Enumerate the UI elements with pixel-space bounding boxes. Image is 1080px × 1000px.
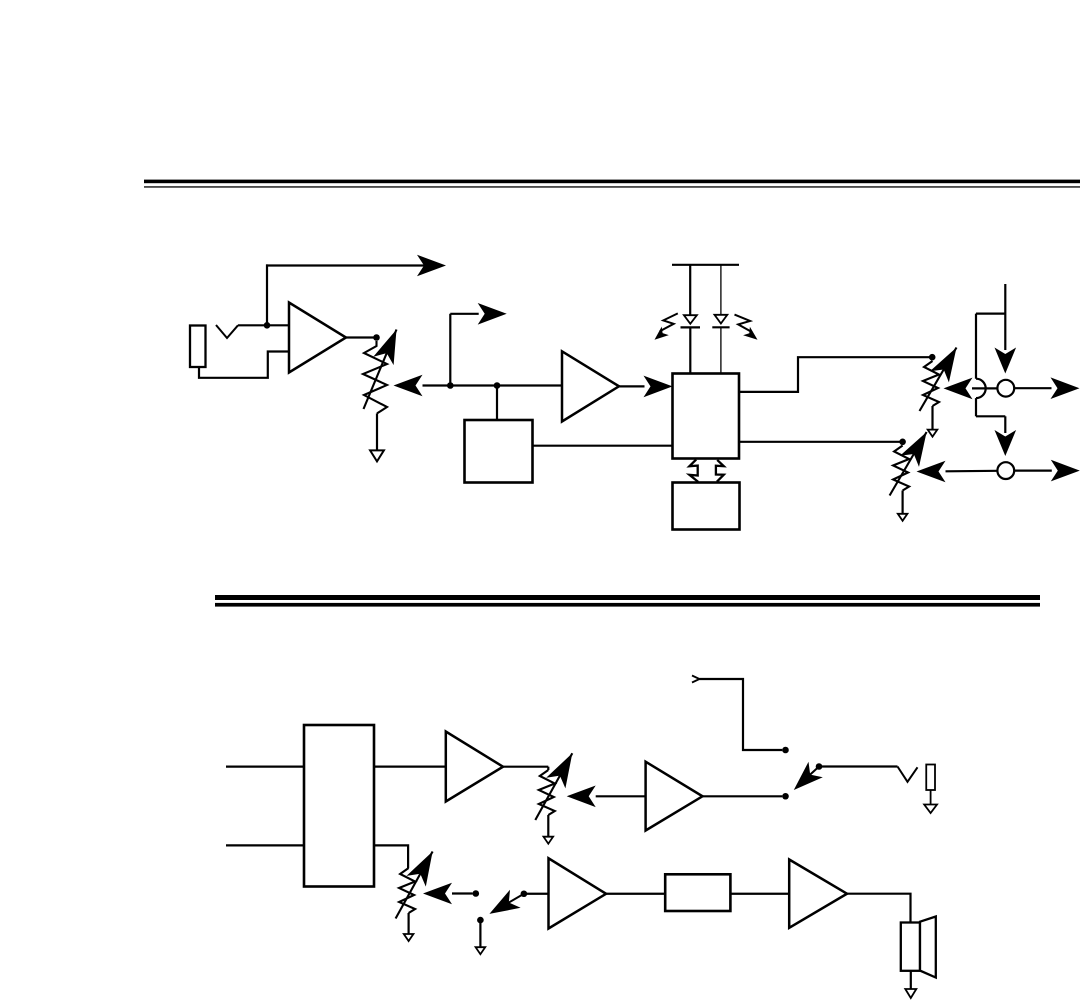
node: AGC tap dot B [494,382,501,389]
IR LED2 cathode bar [712,326,729,328]
VR2 adjust arrow [920,348,957,412]
VR4 adjust arrow [535,753,572,820]
wire: filter to power amp [730,893,789,895]
IR emission flash (right) [735,315,753,333]
wire: drop to mixer 2 [1004,416,1006,433]
VR3 wiper arrow [917,461,946,483]
node: switch common dot [816,763,823,770]
analog ground below VR3 [898,514,908,521]
codec IC U3 (main box) [673,374,740,459]
node: switch throw dot (line in) [782,747,789,754]
wire: DAC out 1 to amp [374,765,446,767]
wire: VR1 bottom to analog ground [376,413,378,450]
bus bolt right (IC to controller) [716,460,724,482]
aux line-in hook (open chevron) [692,676,700,683]
potentiometer VR4 zigzag [539,770,555,815]
wire: VR5 bottom to ground [408,913,410,934]
wire: mixer 2 to VR3 wiper [946,470,998,473]
wire: VR4 wiper to amp U7 [596,795,646,797]
wire: line-in hook run [700,679,783,750]
VR1 wiper arrow [394,375,423,397]
node: switch throw dot (U7 out) [782,793,789,800]
wire: branch down (lower) [975,398,977,416]
node: mute switch throw dot [473,890,480,897]
wire: branch right to mixer 2 drop [976,415,1005,417]
arrowhead: line out 1 [1051,377,1080,399]
potentiometer VR2 zigzag [923,361,939,406]
amp U6 [446,732,503,802]
arrowhead: aux output to system [417,255,446,277]
wire: VR2 bottom to ground [931,406,933,429]
mute switch selector arrow [508,894,524,903]
analog ground below VR1 (open arrow) [370,450,384,461]
IR emission flash (left) [660,313,678,331]
wire: branch up from dot A [449,314,451,386]
filter box [665,874,730,911]
amp U7 [646,762,703,831]
op-amp U1 (mic preamp) [289,303,346,373]
wire: VR1 wiper to buffer amp [423,384,563,386]
wire: IC right upper output (stepped) [739,357,932,392]
node: mute ground throw dot [477,917,484,924]
top horizontal rule (double line) [144,180,1080,184]
mixer node circle 1 [997,380,1014,397]
wire: speaker to ground [910,971,912,989]
wire: mixer 1 output [1014,387,1051,389]
mixer node circle 2 [997,462,1014,479]
wire: switch common to headphone jack [819,765,898,767]
node: wiper bus dot A [447,382,454,389]
wire: U1 output to volume pot [346,336,377,338]
wire: DAC input 1 [226,765,304,767]
wire: mixer 2 output [1014,470,1052,472]
wire: LED1 to IC top [689,327,691,373]
potentiometer VR1 zigzag [363,341,387,413]
wire: feedback from R1 bottom [199,352,289,378]
middle horizontal rule (double line) [215,595,1040,600]
VR1 adjust arrow (diagonal) [364,330,397,410]
arrowhead: line out 2 [1051,460,1080,482]
wire: DAC out 2 step to VR5 [374,845,408,868]
wire: branch out run [450,313,478,315]
IR LED1 (open triangle) [684,315,697,324]
wire: U7 output to switch throw [703,795,783,797]
VR2 wiper arrow [944,378,973,400]
power amp U9 [789,860,847,928]
switch selector arrow [806,767,819,779]
potentiometer VR5 zigzag [399,868,415,913]
wire: U6 output to VR4 [503,766,548,768]
analog ground below VR5 [404,934,414,941]
analog ground below VR2 [928,430,938,437]
wire: dot B down to AGC box [496,386,498,421]
speaker LS1 [901,923,920,971]
wire: junction up to aux output [266,264,268,326]
IR window bar [672,264,739,266]
wire: IR LED1 anode [689,265,691,315]
bus bolt left (IC to controller) [689,460,698,482]
mic jack tip contact (V symbol) [216,325,238,338]
wire: mute throw to ground [479,920,481,947]
IR LED1 cathode bar [681,326,701,328]
wire hop over wiper line (semicircle) [976,379,986,398]
node: VR2 top dot [929,354,936,361]
amp U8 [549,858,607,928]
wire: R2 to ground [930,790,932,804]
node: U1 output dot [373,334,380,341]
wire: VR4 bottom to ground [547,815,549,837]
wire: VR4 top stub [547,767,549,770]
arrowhead: branch output [478,303,507,325]
headphone load resistor R2 [926,765,935,791]
wire: U9 output to speaker [847,894,911,923]
wire: AGC box to codec IC [533,445,673,447]
analog ground below VR4 [544,837,554,844]
wire: U8 output to filter [606,893,665,895]
buffer amp U2 [562,351,619,421]
wire: DAC input 2 [226,844,304,846]
wire: IR LED2 anode [720,265,722,315]
wire: branch down (upper) [975,314,977,379]
IR LED2 (open triangle) [715,315,728,324]
arrowhead: into codec IC [644,376,673,398]
wire: line-in vertical drop [1004,284,1006,350]
VR3 adjust arrow [890,432,927,496]
microphone element R1 (rect) [190,326,206,368]
wire: branch left at top [976,313,1005,315]
node: mute switch common dot [521,890,528,897]
wire: LED2 to IC top [720,327,722,373]
analog ground below R2 [924,805,937,814]
wire: aux output run [266,264,425,266]
wire: jack to op-amp non-inverting input [238,324,289,326]
VR5 adjust arrow [396,852,433,919]
VR5 wiper arrow [423,883,452,905]
VR4 wiper arrow [567,786,596,808]
arrowhead: down into mixer 1 [995,348,1017,374]
node: VR3 top dot [899,439,906,446]
node: op-amp input junction dot [264,322,271,329]
wire: switch common to amp U8 [524,893,549,895]
wire: VR3 bottom to ground [901,491,903,514]
wire: VR5 wiper to mute switch [452,892,473,894]
headphone jack tip (V symbol) [898,767,918,782]
potentiometer VR3 zigzag [893,446,909,491]
arrowhead: down into mixer 2 [995,430,1017,456]
analog ground below speaker [905,989,916,998]
analog ground below mute switch [476,947,486,954]
AGC control box [465,420,533,483]
DAC box U5 (tall rect) [304,725,374,887]
controller box U4 [673,483,740,530]
wire: IC right lower output [739,441,903,443]
wire: VR2 wiper to mixer 1 [972,387,998,389]
wire: U2 output [619,385,645,387]
